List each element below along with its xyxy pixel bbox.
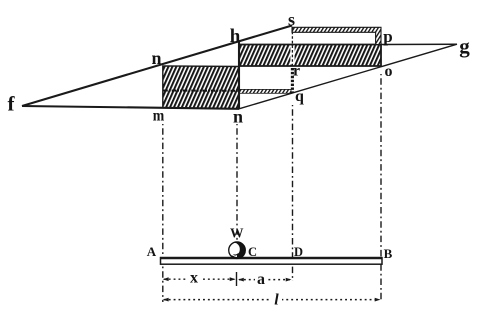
thin hatched strip from rectangle nm toward r	[240, 89, 292, 93]
lever bar AB	[160, 258, 382, 265]
svg-text:h: h	[230, 26, 241, 47]
svg-text:p: p	[383, 27, 392, 46]
rectangle nm (left hatched rectangle)	[163, 66, 239, 109]
svg-text:m: m	[153, 108, 165, 125]
svg-text:D: D	[294, 245, 303, 259]
svg-text:o: o	[385, 63, 393, 80]
svg-text:a: a	[257, 271, 265, 288]
svg-text:A: A	[147, 244, 157, 259]
svg-text:s: s	[288, 9, 295, 29]
svg-text:f: f	[8, 92, 16, 116]
node s dashed vertical line s-r	[290, 27, 294, 66]
wire: vertical edge h-n	[238, 42, 240, 109]
dimension row l	[163, 292, 381, 309]
dimension row x and a	[163, 270, 292, 289]
dash-dot vertical from n down through W	[236, 124, 238, 257]
wire: line f-n-h-s	[22, 26, 292, 107]
internal rough division line of rectangle nm	[163, 89, 239, 91]
svg-text:r: r	[293, 63, 300, 80]
svg-text:l: l	[274, 292, 279, 309]
svg-text:q: q	[295, 88, 304, 105]
dash-dot vertical from o down to B	[380, 74, 382, 302]
svg-text:W: W	[230, 225, 244, 240]
wire: line n-q-o-g	[239, 44, 457, 109]
rectangle hp (large hatched band)	[239, 45, 381, 67]
svg-text:n: n	[233, 107, 243, 127]
gnomon strip s-p (thin hatched L)	[292, 27, 381, 44]
node r heavy dashed strip r-q	[291, 68, 294, 93]
wire: lower line f-m-n	[22, 106, 239, 109]
svg-text:n: n	[151, 48, 161, 68]
svg-text:x: x	[190, 270, 198, 287]
weight W ball at C	[227, 242, 245, 258]
svg-text:g: g	[459, 34, 470, 58]
svg-text:B: B	[384, 246, 393, 261]
wire: line p-g (top edge extension)	[381, 43, 457, 45]
svg-text:C: C	[248, 245, 257, 259]
dash-dot vertical from q down to D	[292, 105, 294, 281]
dash-dot vertical from m down	[162, 124, 164, 302]
tick of n line across dimension row	[236, 272, 238, 286]
